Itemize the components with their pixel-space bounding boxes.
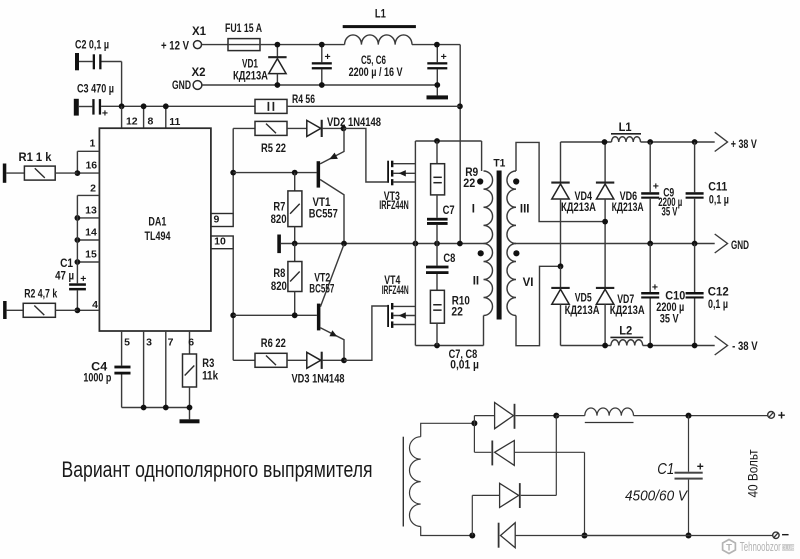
winding VI [507,244,516,316]
junction feed column / supply rail [457,103,463,109]
svg-text:−: − [782,527,790,542]
terminal minus (variant) [773,532,779,538]
svg-text:11k: 11k [202,370,219,382]
common bar terminal [277,235,281,254]
ground bar under C6 [427,95,449,99]
svg-text:8: 8 [147,116,153,128]
svg-text:+ 38 V: + 38 V [731,139,757,151]
wire timing ground rail [122,407,190,409]
junction R9 top [434,138,440,144]
junction pin10 column / VT2 base [230,312,236,318]
diode D2 (from minus rail) [474,451,491,453]
inductor L1 output [611,133,641,135]
junction VD1 bottom [275,82,281,88]
junction R7/R8 rail [292,241,298,247]
junction pin4/R2/C1 [75,307,81,313]
svg-text:VD6: VD6 [620,191,638,203]
svg-text:C7: C7 [443,205,455,217]
svg-text:I: I [472,204,475,216]
svg-text:C1: C1 [657,461,674,478]
pin 15 stub [77,261,99,263]
wire VT4 source rail [415,345,483,347]
svg-text:9: 9 [213,214,219,226]
svg-text:820: 820 [271,214,287,226]
svg-text:0,01 µ: 0,01 µ [450,360,479,372]
wire FU1 to L1 [260,44,345,46]
diode D4 (from minus rail) [498,523,500,548]
svg-text:35 V: 35 V [662,207,678,219]
wire secondary center tap GND rail [516,243,715,245]
junction C1 bottom [686,533,692,539]
node P junction [553,413,559,419]
svg-text:+: + [653,180,659,192]
svg-text:47 µ: 47 µ [55,270,74,282]
resistor R8 820 [294,244,296,262]
svg-text:КД213А: КД213А [565,305,600,317]
svg-text:BC557: BC557 [309,283,334,295]
svg-text:6: 6 [188,336,194,348]
svg-text:IRFZ44N: IRFZ44N [382,285,409,297]
diode VD7 KD213A [596,287,614,289]
wire VD3 junction to VT4 gate [344,306,387,360]
svg-text:DA1: DA1 [148,216,166,228]
svg-text:15: 15 [85,249,97,261]
inductor filter (variant) [585,408,634,416]
svg-text:C1: C1 [60,258,74,270]
svg-text:Tehnoobzor: Tehnoobzor [740,540,781,554]
wire VD2 junction to VT3 gate [344,128,388,182]
capacitor C9 2200u [649,142,651,192]
junction C9/C10 gnd [647,241,653,247]
junction C12 bottom [692,343,698,349]
output arrow GND [715,234,728,253]
wire supply rail to R4 [122,105,255,107]
resistor R4 56 [255,99,287,113]
junction center tap column [457,241,463,247]
svg-text:35 V: 35 V [660,314,679,326]
svg-text:КД213А: КД213А [233,71,268,83]
junction C9 top [647,139,653,145]
wire primary top to winding I [481,141,483,171]
wire node B riser to D3 [471,495,473,535]
transistor Q VT2 BC557 [317,304,321,331]
pin 9 box [211,214,233,227]
op-amp U DA1 TL494 body [99,128,210,331]
svg-text:II: II [473,276,479,288]
wire pin1-pin16 link [76,151,78,173]
svg-text:CLUB: CLUB [781,546,795,552]
pin 8 riser [143,106,145,128]
wire +38 rail [561,141,612,143]
pin 10 box [211,236,233,249]
inductor L2 output [610,336,643,338]
capacitor C1 4500u [688,416,690,472]
junction L1 left / VD6 top [602,139,608,145]
wire D2 anode to minus rail [584,452,586,535]
wire VT3 drain rail [415,140,481,142]
svg-text:16: 16 [85,160,97,172]
svg-text:22: 22 [451,307,463,319]
watermark club box [782,544,794,551]
capacitor C12 0.1u [694,244,696,293]
junction VD6 anode / winding III [602,219,608,225]
resistor R2 4.7k [3,301,7,319]
wire VT1 base [233,172,316,174]
output arrow +38V [715,132,728,151]
junction R10 bottom [434,343,440,349]
diode VD2 1N4148 [287,127,307,129]
diode VD4 KD213A [560,142,562,182]
svg-text:R4 56: R4 56 [292,94,315,106]
terminal plus (variant) [768,412,775,419]
pin 6 stub [189,331,191,354]
watermark logo hexagon [723,540,736,554]
resistor R3 11k [183,354,197,387]
capacitor C4 1000p [114,366,130,369]
resistor R7 820 [294,173,296,191]
svg-text:R7: R7 [273,202,285,214]
capacitor C1 47u [76,262,78,283]
svg-text:2: 2 [90,182,96,194]
junction VT1/VT2 collectors [341,241,347,247]
svg-text:11: 11 [169,116,180,128]
svg-text:22: 22 [463,178,475,190]
pin 4 stub [77,309,99,311]
ground bar under R3 [180,419,200,423]
capacitor C10 2200u [649,244,651,293]
svg-text:IRFZ44N: IRFZ44N [379,200,409,212]
junction C10 bottom [647,343,653,349]
junction pin9 column / VT1 base [230,170,236,176]
svg-text:VD2 1N4148: VD2 1N4148 [327,117,381,129]
svg-text:GND: GND [172,80,191,92]
svg-text:+: + [325,51,331,63]
svg-text:КД213А: КД213А [610,305,645,317]
resistor R10 22 [430,290,444,323]
svg-text:R5 22: R5 22 [261,143,286,155]
svg-text:R6 22: R6 22 [261,338,286,350]
wire winding bottom to node B [421,527,473,536]
resistor R6 22 [233,359,255,361]
svg-text:TL494: TL494 [145,231,171,243]
wire pin9 up to R5 [232,128,234,213]
output arrow -38V [715,336,728,355]
svg-text:VD4: VD4 [575,191,593,203]
pin 16 stub [77,172,99,174]
junction C11 top [692,139,698,145]
svg-text:X2: X2 [191,67,205,79]
svg-text:+: + [441,51,447,63]
junction C7/C8 [434,241,440,247]
wire VT2 base [233,314,317,316]
junction C5 bottom [319,82,325,88]
wire node T riser [473,416,475,453]
wire pins 2-13-14-15 link [76,195,78,262]
node B junction [469,533,475,539]
resistor R1 1k [3,164,7,183]
wire VT3 drain/source bus [414,141,416,346]
wire winding top to node T [421,423,475,436]
svg-text:820: 820 [271,281,287,293]
winding II phase dot [478,250,484,256]
wire minus rail to terminal [585,535,773,537]
wire L1 to +38 output [641,141,715,143]
resistor R5 22 [233,127,255,129]
svg-text:L1: L1 [375,9,386,21]
svg-text:C3 470 µ: C3 470 µ [77,83,114,95]
diode VD5 KD213A [560,266,562,287]
junction VD4/VD5/winding VI [558,263,564,269]
svg-text:7: 7 [168,336,174,348]
wire D3 cathode up to node P [555,416,557,496]
wire winding VI bottom to rectifier [516,266,561,345]
svg-text:2200 µ: 2200 µ [656,302,684,314]
svg-text:VD3 1N4148: VD3 1N4148 [292,374,345,386]
junction C3/C2 [119,103,125,109]
winding I phase dot [477,178,483,184]
svg-text:+ 12 V: + 12 V [161,41,189,53]
winding I [484,171,493,244]
diode VD3 1N4148 [287,359,307,361]
svg-text:T: T [726,543,732,554]
wire X1 to FU1 [202,44,228,46]
transformer core (variant) [402,437,404,527]
svg-text:- 38 V: - 38 V [732,341,758,353]
capacitor C5 left [321,45,323,63]
junction VD7 anode / -38 rail [602,343,608,349]
winding VI phase dot [513,250,519,256]
pin 12 riser [121,106,123,128]
svg-text:Вариант однополярного выпрямит: Вариант однополярного выпрямителя [62,457,373,482]
pin 13 stub [77,217,99,219]
secondary winding (variant) [409,437,420,527]
junction D2/minus rail [582,533,588,539]
svg-text:+: + [778,408,786,423]
pin 7 stub [165,331,167,408]
svg-text:FU1 15 A: FU1 15 A [225,23,262,35]
pin 14 stub [77,239,99,241]
svg-text:L2: L2 [619,326,632,338]
junction VD1 top [275,42,281,48]
svg-text:КД213А: КД213А [561,202,596,214]
svg-text:GND: GND [731,240,749,252]
pin 2 stub [77,194,99,196]
capacitor C8 [436,244,438,266]
pin 3 stub [143,331,145,408]
svg-text:4: 4 [92,299,98,311]
svg-text:1000 p: 1000 p [83,372,111,384]
svg-text:R3: R3 [202,358,214,370]
wire winding II bottom [483,316,485,346]
node T junction [471,420,477,426]
junction C5 top [319,42,325,48]
winding III phase dot [513,178,519,184]
svg-text:10: 10 [214,236,226,248]
svg-text:C5, C6: C5, C6 [361,55,386,67]
junction R8 bottom [292,312,298,318]
transistor Q VT1 BC557 [317,161,321,187]
svg-text:C12: C12 [708,287,729,299]
svg-text:0,1 µ: 0,1 µ [708,299,728,311]
wire winding III top to rectifier [516,142,605,221]
svg-text:C10: C10 [665,290,685,302]
wire +12V feed column to center tap [459,45,461,244]
wire pin10 down to R6 [232,249,234,361]
junction pin3 gnd [141,405,147,411]
svg-text:X1: X1 [192,26,207,38]
svg-text:14: 14 [85,227,97,239]
transistor Q VT3 IRFZ44N [387,161,389,183]
diode D1 (to plus rail) [474,415,494,417]
svg-text:VD1: VD1 [242,59,258,71]
svg-text:R8: R8 [273,268,285,280]
junction C6 top [434,42,440,48]
wire emitter common rail [281,243,484,245]
svg-text:0,1 µ: 0,1 µ [709,195,729,207]
svg-text:+: + [652,282,658,294]
junction C11/C12 gnd [692,241,698,247]
svg-text:III: III [520,204,530,216]
svg-text:VT1: VT1 [313,197,332,209]
svg-text:VD5: VD5 [575,293,592,305]
junction C6 bottom [434,82,440,88]
diode D3 (to plus rail) [472,494,499,496]
junction VD3 / VT2 emitter [341,357,347,363]
svg-text:BC557: BC557 [309,209,338,221]
svg-text:C11: C11 [708,182,728,194]
svg-text:40 Вольт: 40 Вольт [746,450,761,498]
svg-text:5: 5 [124,336,130,348]
svg-text:1: 1 [89,138,95,150]
svg-text:T1: T1 [493,158,505,170]
wire L1 to corner [412,44,460,46]
capacitor C7 [436,195,438,218]
diode VD1 KD213A [276,45,278,57]
svg-text:2200 µ / 16 V: 2200 µ / 16 V [349,67,403,79]
junction pin16/R1 [75,170,81,176]
terminal X1 +12V [194,41,202,49]
terminal X2 GND [193,81,202,90]
svg-text:3: 3 [146,336,152,348]
winding II [484,244,493,316]
svg-text:L1: L1 [619,122,633,134]
capacitor C2 0.1u [75,53,79,70]
svg-text:VD7: VD7 [617,294,634,306]
svg-text:C8: C8 [443,253,455,265]
diode VD6 KD213A [604,142,606,182]
transistor Q VT4 IRFZ44N [387,305,389,327]
transformer T1 core [497,171,502,320]
capacitor C6 right [436,45,438,63]
svg-text:4500/60 V: 4500/60 V [625,489,688,505]
svg-text:13: 13 [85,205,97,217]
capacitor C3 470u [74,99,79,116]
junction VD2 / VT1 emitter [341,125,347,131]
svg-text:R1 1 k: R1 1 k [19,152,53,164]
capacitor C11 0.1u [694,142,696,192]
pin 11 riser [165,106,167,128]
resistor R9 22 [436,141,438,164]
winding III [507,171,516,244]
svg-text:12: 12 [126,116,138,128]
wire plus rail [556,415,585,417]
pin 1 stub [77,150,99,152]
svg-text:КД213А: КД213А [612,202,644,214]
wire -38 rail [561,345,611,347]
wire GND rail from X2 [202,84,437,86]
junction C1 top [686,413,692,419]
junction pin7 gnd [163,405,169,411]
svg-text:VI: VI [523,277,534,289]
svg-text:C2 0,1 µ: C2 0,1 µ [75,40,109,52]
pin 5 stub [121,331,123,366]
junction R3 gnd [187,405,193,411]
inductor L1 input [343,25,416,28]
wire R4 to feed column [287,105,460,107]
svg-text:+: + [697,459,704,473]
junction VT3 source / VT4 drain [413,241,419,247]
junction R7 top [292,170,298,176]
svg-text:+: + [80,273,86,285]
svg-text:R2 4,7 k: R2 4,7 k [24,288,57,300]
fuse FU1 15A [228,39,260,51]
svg-text:+: + [102,108,108,120]
